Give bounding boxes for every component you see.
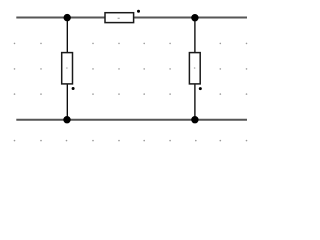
resistor R1 bbox=[105, 10, 140, 23]
wire: left branch bbox=[66, 18, 68, 120]
node: top-right junction bbox=[191, 14, 198, 21]
wire: right branch bbox=[194, 18, 196, 120]
node: bottom-right junction bbox=[191, 116, 198, 123]
node: bottom-left junction bbox=[63, 116, 70, 123]
wire: top rail bbox=[16, 17, 247, 19]
node: top-left junction bbox=[63, 14, 70, 21]
resistor R3 bbox=[189, 53, 201, 91]
wire: bottom rail bbox=[16, 119, 247, 121]
resistor R2 bbox=[62, 53, 75, 90]
